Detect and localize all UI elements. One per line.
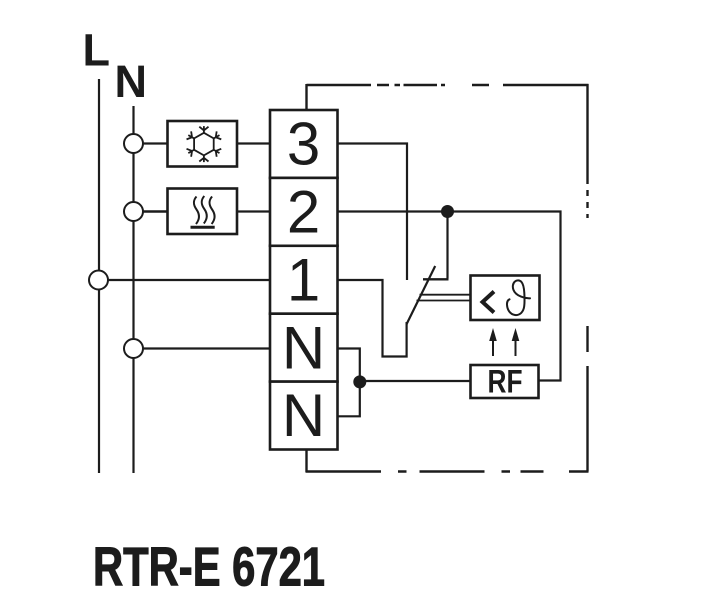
wire N loop between N terminals bbox=[339, 349, 360, 417]
svg-text:RTR-E 6721: RTR-E 6721 bbox=[93, 537, 325, 598]
terminal 1 bbox=[270, 246, 338, 314]
wire terminal 2 to RF right side bbox=[339, 212, 561, 381]
wire L vertical bbox=[98, 79, 100, 473]
wire terminal 1 to switch pivot bbox=[339, 280, 407, 357]
junction circle on N line heating branch bbox=[124, 202, 143, 221]
terminal N lower bbox=[270, 382, 338, 450]
svg-text:L: L bbox=[83, 25, 111, 76]
wire junction dot down to heating contact bbox=[446, 212, 448, 279]
terminal 2 bbox=[270, 178, 338, 246]
svg-text:N: N bbox=[282, 314, 325, 381]
wire N to terminal N bbox=[143, 347, 269, 349]
heating load box bbox=[168, 189, 238, 235]
sensor theta symbol bbox=[507, 280, 530, 315]
junction circle on N line for terminal N bbox=[124, 339, 143, 358]
wire N junction to RF left side bbox=[360, 380, 471, 382]
svg-text:2: 2 bbox=[287, 179, 320, 246]
arrow RF to sensor right bbox=[512, 328, 520, 356]
temperature sensor box bbox=[471, 276, 540, 321]
wire N vertical bbox=[132, 106, 134, 473]
svg-text:N: N bbox=[282, 382, 325, 449]
svg-text:3: 3 bbox=[287, 111, 320, 178]
junction dot on N loop bbox=[353, 375, 366, 388]
svg-text:N: N bbox=[115, 56, 148, 107]
wire L to terminal 1 bbox=[108, 279, 269, 281]
wire heating branch right bbox=[237, 210, 269, 212]
arrow RF to sensor left bbox=[489, 328, 497, 356]
svg-text:RF: RF bbox=[488, 364, 523, 400]
cooling snowflake icon bbox=[186, 126, 222, 162]
svg-text:1: 1 bbox=[287, 246, 320, 313]
heating element icon bbox=[191, 196, 215, 227]
sensor less-than symbol bbox=[483, 292, 495, 313]
wire cooling branch left bbox=[144, 142, 168, 144]
cooling load box bbox=[168, 121, 238, 167]
thermostat enclosure dash-dot border bbox=[306, 84, 589, 472]
junction circle on L line for terminal 1 bbox=[89, 271, 108, 290]
wire heating branch left bbox=[144, 210, 168, 213]
switch arm bbox=[406, 266, 435, 325]
mechanical link to sensor bbox=[417, 295, 471, 301]
wire cooling branch right bbox=[237, 142, 269, 144]
terminal N upper bbox=[270, 314, 338, 382]
RF receiver box bbox=[471, 365, 539, 398]
junction dot on terminal 2 wire bbox=[441, 205, 454, 218]
wire terminal 3 to cooling contact bbox=[339, 144, 408, 281]
junction circle on N line cooling branch bbox=[124, 134, 143, 153]
terminal 3 bbox=[270, 110, 338, 178]
heating fixed contact bar bbox=[423, 278, 449, 280]
